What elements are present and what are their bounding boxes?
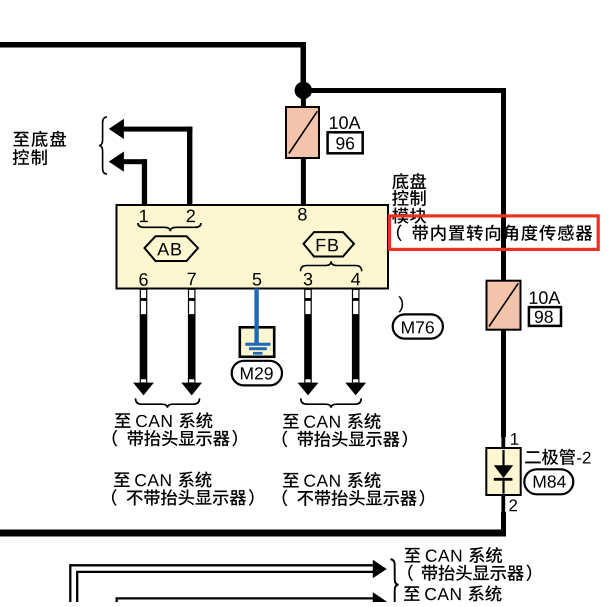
fuse 96 (10A) <box>286 107 319 158</box>
wire: pin 6 to CAN (arrow down) <box>133 289 154 395</box>
label M84 oval <box>524 469 573 494</box>
label: 至 CAN 系统 (left, no HUD) <box>114 471 212 487</box>
label: 至 CAN 系统 (bottom, HUD) <box>405 547 503 563</box>
wire: thin lead into diode <box>501 437 505 449</box>
brace: CAN label group (clipped at bottom) <box>390 559 398 602</box>
label: 10A (fuse 98) <box>530 291 561 304</box>
label box: fuse number 98 <box>529 307 561 326</box>
pin 2 number <box>187 210 195 223</box>
label: 98 <box>535 311 553 323</box>
label M76 oval <box>393 314 443 338</box>
label: 96 <box>336 137 354 149</box>
pin 8 number <box>298 208 306 221</box>
label: 至底盘 <box>13 131 66 147</box>
ground M29 <box>240 327 274 357</box>
pin 1 number <box>140 210 148 222</box>
module M76 底盘控制模块 (body) <box>117 205 389 289</box>
label: 至 CAN 系统 (right, HUD) <box>283 413 381 429</box>
label: 至 CAN 系统 (left, HUD) <box>115 412 213 428</box>
label: M84 <box>534 475 566 487</box>
label: AB <box>157 243 181 255</box>
wire: pin 2 to chassis control (arrow left) <box>109 119 193 205</box>
label: M76 <box>402 321 434 333</box>
label: 模块 <box>392 208 426 224</box>
label: 二极管-2 <box>525 449 590 465</box>
CAN bus pair (lower loop, partial) <box>117 598 374 602</box>
label: （不带抬头显示器） (left) <box>112 489 254 506</box>
label box: fuse number 96 <box>328 132 363 153</box>
label: （带抬头显示器） (bottom) <box>408 564 531 581</box>
brace: group to chassis control <box>99 117 107 174</box>
label M29 oval <box>232 361 282 386</box>
wire: fuse 96 to module pin 8 <box>301 158 306 205</box>
label: （带抬头显示器） (left) <box>113 430 237 447</box>
pin 7 number <box>188 273 196 285</box>
wire: right bus down to fuse 98 <box>501 88 506 281</box>
wire: diode pin 2 down to bottom bus <box>501 512 506 537</box>
diode pin 2 number <box>509 499 517 511</box>
diode pin 1 number <box>511 433 518 445</box>
label: 10A (fuse 96) <box>330 116 361 129</box>
connector AB hexagon <box>145 236 199 261</box>
CAN bus pair (upper loop) <box>70 565 373 602</box>
pin 4 number <box>351 273 360 285</box>
diode M84 <box>486 448 520 495</box>
connector FB hexagon <box>304 232 355 256</box>
arrowhead: to CAN (upper) <box>373 560 387 578</box>
wire: junction down to fuse 96 <box>301 92 306 108</box>
label: M29 <box>241 367 273 379</box>
pin 3 number <box>304 273 313 286</box>
label: （带内置转向角度传感器 <box>397 224 592 241</box>
label: 控制 (module) <box>392 190 425 206</box>
wire: pin 3 to CAN (arrow down) <box>298 289 319 395</box>
label: （不带抬头显示器） (right) <box>283 490 425 507</box>
red highlight box <box>390 216 599 250</box>
wire: junction to right bus <box>303 88 506 93</box>
label: （带抬头显示器） (right) <box>283 431 407 448</box>
label: 控制 <box>13 149 47 165</box>
wire: fuse 98 to diode pin 1 <box>501 330 506 437</box>
label: 至 CAN 系统 (bottom 2) <box>404 585 502 601</box>
wire: pin 1 to chassis control (arrow left) <box>109 152 147 206</box>
wire: pin 7 to CAN (arrow down) <box>181 289 202 395</box>
label: FB <box>317 239 338 251</box>
label: closing paren of module note <box>398 296 403 313</box>
wire: thin lead out of diode <box>501 495 505 512</box>
pin 5 number <box>253 273 262 286</box>
wire: bottom bus horizontal <box>0 530 506 537</box>
fuse 98 (10A) <box>487 281 521 330</box>
brace: FB to pins 3-4 <box>301 261 362 271</box>
wire: pin 4 to CAN (arrow down) <box>345 289 366 395</box>
brace: pins 3-4 CAN group <box>301 398 361 407</box>
node: junction above fuse 96 <box>295 82 312 99</box>
brace: pins 6-7 CAN group <box>136 398 200 407</box>
wire: pin 5 to ground M29 (blue) <box>254 289 258 345</box>
wire: drop from top feed to junction <box>301 42 307 91</box>
label: 底盘 <box>392 173 426 189</box>
arrowhead: to CAN (lower, clipped) <box>373 592 387 607</box>
label: 至 CAN 系统 (right, no HUD) <box>283 472 381 488</box>
pin 6 number <box>139 273 147 286</box>
brace: pins 1-2 group to AB <box>138 223 201 231</box>
wire: battery feed, top horizontal <box>0 42 306 48</box>
